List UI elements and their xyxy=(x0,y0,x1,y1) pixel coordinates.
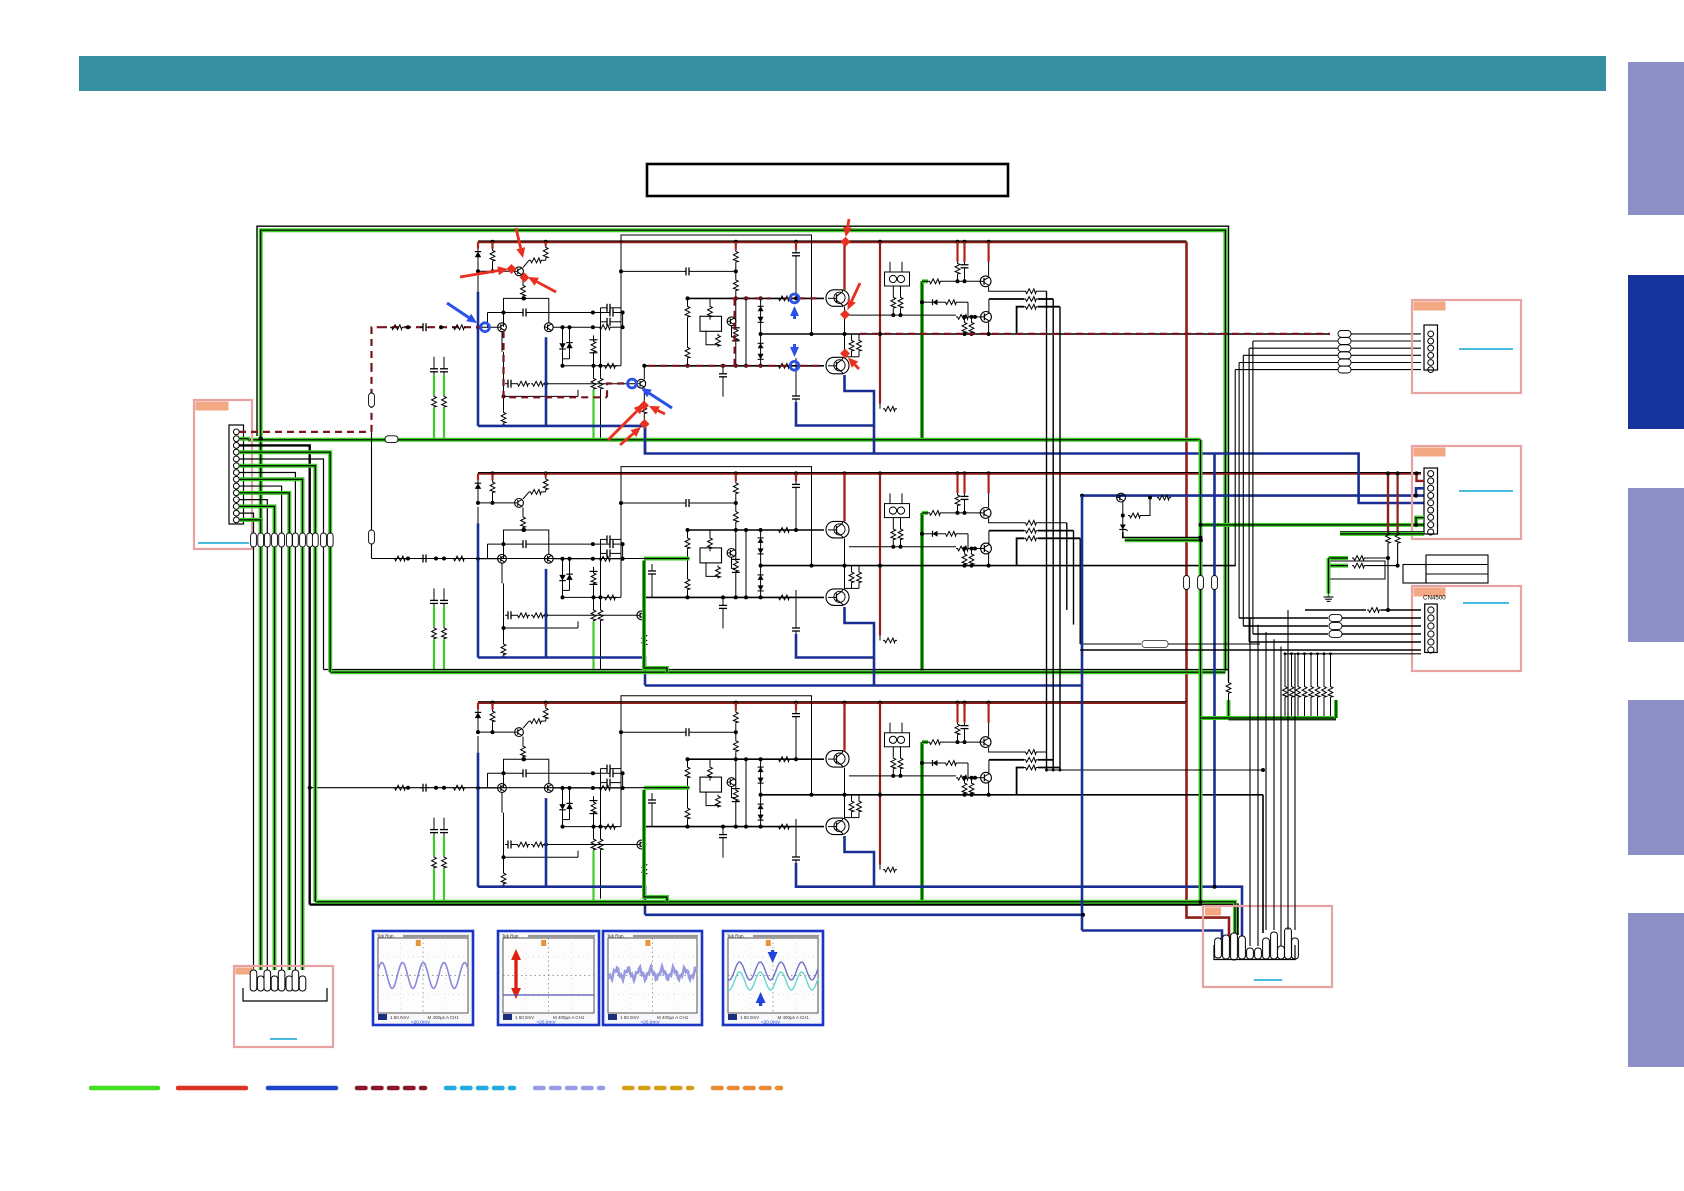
junction dots on top bus xyxy=(491,240,991,244)
blk3 diode D4 row xyxy=(930,760,940,766)
wire dashed long to CN1 xyxy=(860,333,1330,335)
wire bot-block blue to box xyxy=(874,887,1242,940)
blk2 diode D1 at bus left end xyxy=(477,473,479,480)
blk1 mid row dots xyxy=(810,332,814,336)
pill on green-descend vertical xyxy=(1198,576,1204,590)
blk2 wire base row xyxy=(477,492,479,503)
capacitor on mid feed xyxy=(420,555,429,563)
wire CN1 pin6 xyxy=(1235,369,1338,371)
blk2 wire Q4 collector xyxy=(643,597,645,611)
wire dark red bus middle block xyxy=(478,472,1421,475)
wire green outer loop xyxy=(261,230,1226,671)
pill on red vertical xyxy=(1184,576,1190,590)
blk3 resistor R6 feedback xyxy=(516,842,530,847)
blk1 wire lower-left branch xyxy=(503,384,505,397)
annotation blue arrow 4 up xyxy=(790,306,799,319)
wire pin12 fanout xyxy=(239,506,275,533)
blk2 wire pair-top rail xyxy=(504,530,549,558)
blk3 resistor R12 gate xyxy=(777,757,791,762)
wire CN4500 pin1 xyxy=(1305,609,1366,611)
blk1 green sense vertical xyxy=(920,281,924,440)
wire CN right-mid pin9 pair xyxy=(1340,531,1424,533)
blk1 capacitor C5 snubber xyxy=(722,366,724,371)
blk1 resistor R9 Q4 emitter xyxy=(643,388,645,401)
oscilloscope screenshot 2 xyxy=(498,931,599,1025)
blk1 blue left vertical xyxy=(477,292,480,426)
blk1 blue Q3 emitter vertical xyxy=(545,337,548,426)
blk2 diode D4 row xyxy=(930,531,940,537)
blk2 resistor pair below xyxy=(964,549,966,553)
wire black green pair from Q10 xyxy=(1123,532,1201,538)
blk3 capacitor C5 snubber xyxy=(722,827,724,832)
blk2 pulse transformer T1 xyxy=(885,504,910,518)
wire green stub below resistor xyxy=(1227,700,1231,718)
blk3 resistor R21 xyxy=(598,786,612,791)
blk2 resistor R20 sense xyxy=(883,638,897,643)
blk1 diode D1 at bus left end xyxy=(477,242,479,249)
blk2 capacitor C1 row xyxy=(488,543,521,545)
connector CN left pink box xyxy=(194,400,252,549)
blk2 output row 3 xyxy=(1017,538,1024,565)
capacitor bot-block emitter xyxy=(795,819,797,854)
blk2 capacitor C2 feedback xyxy=(505,611,514,619)
connector CN right-mid pink box xyxy=(1412,446,1521,539)
blk1 transformer secondary resistors xyxy=(892,286,894,296)
ground symbol thermal xyxy=(1324,594,1334,602)
blk2 resistor R16 gate lower xyxy=(777,595,791,600)
wire CN1 pin3 xyxy=(1249,347,1338,349)
svg-text:1 50.0mV: 1 50.0mV xyxy=(515,1015,534,1020)
capacitor bot feed xyxy=(648,797,656,806)
blk2 capacitor C10 row xyxy=(607,540,616,548)
sidebar tab 5 xyxy=(1628,913,1684,1067)
resistor on dashed input xyxy=(390,325,404,330)
wire fanout descend pin10 xyxy=(287,547,291,970)
annotation blue ring 3 xyxy=(790,361,799,370)
oscilloscope screenshot 4 xyxy=(723,931,823,1025)
blk1 wire collector Q5 red xyxy=(843,242,845,290)
resistor 2 on bot feed xyxy=(452,785,466,790)
blk3 wire Q4 collector xyxy=(643,827,645,841)
wire bot-block blue bottom rail xyxy=(645,913,1083,916)
blk1 wire black 478 upper xyxy=(477,275,479,292)
blk1 black column B xyxy=(600,366,602,377)
svg-text:≈20.0mV: ≈20.0mV xyxy=(537,1020,557,1026)
blk2 capacitor C3 row xyxy=(683,499,692,507)
blk2 transistor Q8 xyxy=(987,473,989,493)
blk3 transformer base row xyxy=(849,775,956,777)
blk3 resistor R16 gate lower xyxy=(777,824,791,829)
blk2 resistor R12 gate xyxy=(777,528,791,533)
bracket bottom-left xyxy=(243,988,327,1001)
wire dark red bus bottom block xyxy=(478,701,1187,704)
wire verticals into bottom-right box xyxy=(1249,617,1251,946)
blk3 resistor R3 collector xyxy=(529,719,543,724)
blk1 resistor C6 bus xyxy=(956,242,958,262)
blk3 resistor C6 bus xyxy=(956,703,958,723)
blk3 diode column D5 D6 xyxy=(758,803,764,823)
blk1 resistor R16 gate lower xyxy=(777,363,791,368)
wire CN1 bends descend xyxy=(1252,341,1254,634)
wire bundle bottom row y770 xyxy=(1047,769,1264,771)
wire CN right-mid red jog pin2 xyxy=(1417,473,1425,481)
junction dots on middle bus xyxy=(491,471,991,475)
blk2 capacitor C5 snubber xyxy=(722,597,724,602)
blk2 transformer secondary resistors xyxy=(892,518,894,528)
blk2 wire Q8 output row xyxy=(989,518,1024,523)
connector bottom-right pink box xyxy=(1203,906,1332,987)
blk1 wire lower rail segment xyxy=(563,365,622,367)
blk2 resistor C6 bus xyxy=(956,473,958,493)
thermistor green ground leg xyxy=(1327,558,1331,594)
terminal pills bottom-right xyxy=(1215,928,1299,960)
teal header bar xyxy=(79,56,1606,91)
blk3 wire emitter column Q2 xyxy=(501,792,503,812)
connector CN4500 pink box xyxy=(1412,586,1521,671)
blk1 wire base row xyxy=(477,261,479,272)
annotation blue arrow 2 xyxy=(641,388,672,408)
wire mid-block green rail xyxy=(330,670,1225,674)
blk2 mid row dots xyxy=(810,564,814,568)
wire fanout descend pin13 xyxy=(253,547,255,970)
blk3 green sense vertical xyxy=(920,742,924,901)
title box xyxy=(647,164,1008,196)
sidebar tab 2 active xyxy=(1628,275,1684,429)
wire CN4500 pin4 xyxy=(1253,633,1328,635)
blk2 green column C xyxy=(430,597,438,606)
blk3 resistor R11 center xyxy=(733,739,738,752)
blk3 opto coupler box xyxy=(709,759,711,765)
blk1 resistor R3 emitter xyxy=(522,276,524,284)
wire CN4500 pin3 xyxy=(1243,625,1328,627)
blk2 wire collector Q5 red xyxy=(843,473,845,521)
blk2 opto coupler box xyxy=(709,530,711,536)
blk2 resistor R7 feedback xyxy=(531,613,545,618)
blk3 long row through xyxy=(761,794,1263,796)
wire blue branch to CN mid xyxy=(1082,494,1424,497)
blk1 transformer base row xyxy=(849,314,956,316)
blk1 column center R15 xyxy=(735,298,737,327)
blk2 resistor R4 with bars xyxy=(593,567,595,571)
blk2 resistor R21 xyxy=(598,556,612,561)
transistor Q10 discharge xyxy=(1117,493,1126,502)
blk1 resistor R11 center xyxy=(733,278,738,291)
blk1 wire Q4 collector xyxy=(643,366,645,380)
blk2 maroon sense vertical xyxy=(879,473,881,635)
blk3 green column C xyxy=(430,827,438,836)
sidebar tab 1 xyxy=(1628,62,1684,215)
blk3 green column A xyxy=(593,827,595,838)
wire mid-block feed green xyxy=(644,557,690,561)
annotation red arrow e xyxy=(649,406,665,415)
wire top-block blue right piece xyxy=(796,402,874,426)
blk3 resistor R3 emitter xyxy=(522,737,524,745)
blk1 resistor R19 Q9 base xyxy=(956,315,970,320)
blk1 resistor R2 collector xyxy=(545,242,547,246)
blk2 transformer base row xyxy=(849,546,956,548)
blk2 black column B xyxy=(600,597,602,608)
bead row on fanout xyxy=(251,533,334,547)
wire bundle verticals xyxy=(1046,291,1048,770)
wire pin8 fanout xyxy=(239,479,303,533)
blk2 column center R15 xyxy=(735,530,737,559)
svg-text:≈20.0mV: ≈20.0mV xyxy=(411,1020,431,1026)
blk3 wire collector Q5 red xyxy=(843,703,845,751)
blk1 capacitor C2 feedback xyxy=(505,380,514,388)
capacitor on dashed input xyxy=(420,323,429,331)
connector CN right-top pins xyxy=(1428,331,1434,373)
blk3 resistor R2 collector xyxy=(545,703,547,707)
annotation red arrow d xyxy=(608,404,644,440)
svg-text:M 400µs A CH1: M 400µs A CH1 xyxy=(657,1015,689,1020)
bead on top-block green rail xyxy=(385,436,398,443)
blk2 resistor R5 lower xyxy=(603,595,617,600)
blk3 resistor R5 lower xyxy=(603,824,617,829)
resistor row small xyxy=(1284,654,1286,685)
blk2 green column D xyxy=(440,597,448,606)
wire fanout descend pin7 xyxy=(294,547,296,970)
blk2 upper gate rail xyxy=(688,529,825,531)
blk2 back row columns xyxy=(600,539,602,597)
blk3 capacitor C2 feedback xyxy=(505,841,514,849)
blk3 resistor R1 xyxy=(491,703,493,710)
bracket bottom-right xyxy=(1214,945,1295,960)
annotation red arrow i igbt1 diamond xyxy=(840,310,850,320)
legend blue solid xyxy=(268,1086,336,1091)
blk1 upper gate rail xyxy=(688,297,825,299)
wire dashed gate row upper xyxy=(731,297,770,299)
wire bottom pair verticals xyxy=(309,547,311,905)
wire dashed horizontal to Q2 xyxy=(380,326,480,328)
blk1 resistor R20 sense xyxy=(883,406,897,411)
junction dots on bottom bus xyxy=(491,701,991,705)
connector bottom-left pink box xyxy=(234,966,333,1047)
wire dashed gate row lower xyxy=(648,365,789,367)
connector CN right-mid pins xyxy=(1428,471,1434,535)
blk3 transistor Q2 xyxy=(498,784,507,793)
svg-text:M 400µs A CH1: M 400µs A CH1 xyxy=(428,1015,460,1020)
blk3 capacitor C9 back row xyxy=(604,779,613,787)
thermistor row 1 xyxy=(1329,556,1349,560)
blk2 blue inner rail xyxy=(478,658,645,686)
blk3 capacitor C8 back row xyxy=(604,765,613,773)
blk1 green column A xyxy=(593,366,595,377)
blk1 resistor R21 xyxy=(598,325,612,330)
blk1 capacitor C8 back row xyxy=(604,304,613,312)
blk2 capacitor C4 gate supply xyxy=(795,473,797,481)
blk3 green column D xyxy=(440,827,448,836)
blk1 wire Q5-Q7 link resistors xyxy=(844,307,846,358)
capacitor mid feed xyxy=(648,568,656,577)
blk2 resistor R2 collector xyxy=(545,473,547,477)
wire mid-block blue right piece xyxy=(796,634,874,658)
blk1 output row 3 xyxy=(1017,307,1024,334)
wire green loop into box xyxy=(259,547,263,970)
blk3 capacitor C4 gate supply xyxy=(795,703,797,711)
legend red solid xyxy=(178,1086,246,1091)
blk3 maroon sense vertical xyxy=(879,703,881,865)
blk3 wire lower-left branch xyxy=(503,845,505,858)
connector CN left body xyxy=(229,425,244,524)
blk3 resistor R9 Q4 emitter xyxy=(643,849,645,862)
cyan link bottom-left xyxy=(270,1038,297,1040)
blk2 resistor R3 emitter xyxy=(522,507,524,515)
wire bottom row turn down to box xyxy=(1262,795,1264,933)
svg-text:1 50.0mV: 1 50.0mV xyxy=(740,1015,759,1020)
blk3 IGBT Q5 upper xyxy=(826,751,849,768)
capacitor mid-block emitter xyxy=(795,590,797,625)
wire fanout descend pin9 xyxy=(281,547,283,970)
oscilloscope screenshot 1 xyxy=(373,931,473,1025)
orange tab left box xyxy=(196,402,229,411)
blk1 resistor R12 gate xyxy=(777,296,791,301)
blk3 IGBT Q7 lower xyxy=(826,818,849,835)
blk2 transistor Q2 xyxy=(498,554,507,563)
blk3 wire Q2 base stub xyxy=(480,787,498,789)
annotation red arrow f diamond low xyxy=(640,419,650,429)
wire pin3 fanout xyxy=(239,445,310,533)
wire pin1 dashed maroon start xyxy=(239,431,372,433)
wire pin4 fanout xyxy=(239,452,330,533)
sidebar tab 4 xyxy=(1628,700,1684,855)
label plates stack xyxy=(1426,555,1488,583)
svg-text:≈20.0mV: ≈20.0mV xyxy=(641,1020,661,1026)
blk2 resistor R6 feedback xyxy=(516,613,530,618)
blk1 capacitor C4 gate supply xyxy=(795,242,797,250)
connector CN right-top body xyxy=(1424,325,1438,370)
blk2 resistor R8 bottom left xyxy=(503,628,505,642)
annotation red arrow c xyxy=(528,277,556,292)
terminal pills bottom-left xyxy=(250,970,306,991)
wire blue vertical x1082 xyxy=(1081,496,1084,931)
blk3 transistor Q3 xyxy=(544,784,553,793)
blk3 wire Q5-Q7 link resistors xyxy=(844,768,846,819)
svg-text:1 50.0mV: 1 50.0mV xyxy=(620,1015,639,1020)
blk1 resistor R3 collector xyxy=(529,258,543,263)
annotation red arrow b xyxy=(516,228,525,258)
wire resistor columns down xyxy=(1387,544,1389,610)
thermistor cluster box xyxy=(1330,561,1385,579)
wire bot-block feed green xyxy=(644,786,690,790)
blk1 green column D xyxy=(440,366,448,375)
blk2 wire lower rail segment xyxy=(563,596,622,598)
blk1 wire Q9 emitter down xyxy=(988,322,990,334)
svg-text:1 50.0mV: 1 50.0mV xyxy=(390,1015,409,1020)
wire green ground rail row xyxy=(1201,716,1337,720)
wire bot-block green rail xyxy=(315,902,1235,935)
blk1 resistor R6 feedback xyxy=(516,381,530,386)
blk3 transistor Q1 xyxy=(515,728,524,737)
blk1 capacitor C3 row xyxy=(683,267,692,275)
blk3 column plain xyxy=(745,759,747,826)
blk1 transistor Q3 xyxy=(544,323,553,332)
blk2 wire black 478 upper xyxy=(477,507,479,524)
blk2 diode column D2 D3 xyxy=(758,536,764,556)
blk2 IGBT Q7 lower xyxy=(826,589,849,606)
blk3 wire pair-top rail xyxy=(504,759,549,787)
connector CN4500 pins xyxy=(1428,607,1434,653)
connector CN left pins xyxy=(233,429,239,523)
wire mid-block blue bottom rail xyxy=(645,684,1082,687)
blk2 output row 2 xyxy=(989,530,1024,532)
wire mid-block feed xyxy=(372,558,645,560)
blk1 diode D4 row xyxy=(930,299,940,305)
wire top black border xyxy=(257,226,1229,681)
blk1 resistor R7 feedback xyxy=(531,381,545,386)
sidebar tab 3 xyxy=(1628,488,1684,642)
blk3 wire base row xyxy=(477,722,479,733)
wire bot-block feed xyxy=(308,786,312,790)
blk1 transistor Q1 xyxy=(515,267,524,276)
wire top-block green rail xyxy=(248,438,1201,442)
blk2 IGBT Q5 upper xyxy=(826,521,849,538)
blk3 wire Q8 output row xyxy=(989,748,1024,753)
blk1 wire Q8 output row xyxy=(989,287,1024,292)
blk3 transistor Q6 opto xyxy=(727,778,736,787)
annotation blue ring 4 xyxy=(790,294,799,303)
blk3 diode column D2 D3 xyxy=(758,766,764,786)
capacitor on bot feed xyxy=(420,784,429,792)
blk3 resistor R4 with bars xyxy=(593,796,595,800)
blk2 transistor Q3 xyxy=(544,554,553,563)
wire pin5 fanout xyxy=(239,459,324,533)
wire CN4500 pin2 xyxy=(1239,617,1328,619)
blk2 wire Q2 base stub xyxy=(480,558,498,560)
wire pin6 fanout xyxy=(239,466,315,533)
blk1 column resistors R13 R14 xyxy=(687,298,689,304)
blk1 resistor R17 xyxy=(928,279,942,284)
wire dashed Q2 down path xyxy=(504,331,608,397)
blk3 upper gate rail xyxy=(688,758,825,760)
blk3 capacitor C10 row xyxy=(607,769,616,777)
wire CN4500 pin6 xyxy=(1080,649,1421,651)
blk1 wire Q2 base stub xyxy=(480,326,498,328)
blk3 opto network xyxy=(716,795,721,808)
blk3 resistor R8 bottom left xyxy=(503,857,505,871)
blk1 resistor R4 with bars xyxy=(593,335,595,339)
annotation red arrow h igbt1 xyxy=(848,283,861,310)
blk2 blue left vertical xyxy=(477,523,480,657)
annotation red arrow k igbt2 diamond xyxy=(840,349,850,359)
blk3 blue Q3 emitter vertical xyxy=(545,798,548,887)
blk2 wire Q3 right row xyxy=(553,558,598,560)
blk2 capacitor C9 back row xyxy=(604,549,613,557)
wire CN4500 bottom row xyxy=(1285,653,1421,655)
blk3 blue left vertical xyxy=(477,753,480,887)
blk1 output row 2 xyxy=(989,298,1024,300)
wire fanout descend pin12 xyxy=(273,547,277,970)
annotation blue arrow 3 down xyxy=(790,344,799,357)
blk2 wire lower-left branch xyxy=(503,615,505,628)
legend goldenrod dashed xyxy=(624,1086,692,1091)
blk1 transistor Q9 xyxy=(988,299,990,312)
junction dots green pins at loop xyxy=(259,436,263,522)
wire Q10 network xyxy=(1122,502,1124,516)
resistor on black border right leg xyxy=(1226,681,1231,694)
wire CN4500 pin5 xyxy=(1249,641,1421,643)
blk3 capacitor C1 row xyxy=(488,772,521,774)
wire fuse row y644 xyxy=(1080,643,1141,645)
zener diode Q10 xyxy=(1122,516,1124,523)
blk3 column center R15 xyxy=(735,759,737,788)
blk2 transistor Q1 xyxy=(515,499,524,508)
blk1 wire Q3 right row xyxy=(553,326,598,328)
legend cyan dashed xyxy=(446,1086,514,1091)
blk2 column plain xyxy=(745,530,747,597)
blk3 resistor pair below xyxy=(964,778,966,782)
wire dark red feeder vertical right xyxy=(1187,242,1230,941)
blk1 capacitor C1 row xyxy=(488,312,521,314)
